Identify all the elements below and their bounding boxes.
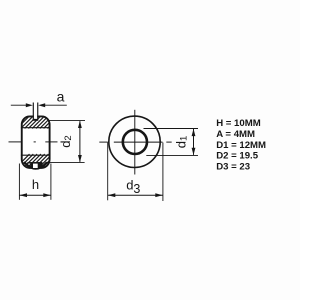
svg-text:d2: d2 bbox=[58, 135, 74, 148]
svg-text:a: a bbox=[57, 88, 65, 104]
svg-text:H = 10MM: H = 10MM bbox=[216, 118, 261, 129]
svg-text:A = 4MM: A = 4MM bbox=[216, 129, 255, 140]
dimension d3: arrows bbox=[108, 193, 115, 197]
svg-text:D1 = 12MM: D1 = 12MM bbox=[216, 140, 266, 151]
top slot white channel (hole a) bbox=[34, 102, 37, 119]
dimension d2: extension lines bbox=[47, 120, 85, 162]
svg-text:d1: d1 bbox=[173, 136, 189, 149]
svg-text:d3: d3 bbox=[126, 178, 140, 197]
top slot bottom closing bbox=[33, 119, 39, 121]
top slot right line bbox=[37, 103, 39, 120]
svg-text:D3 = 23: D3 = 23 bbox=[216, 162, 250, 173]
dimension d1: extension lines bbox=[144, 129, 199, 156]
top slot left line bbox=[32, 103, 34, 120]
bottom notch white channel bbox=[33, 164, 38, 168]
chord line top (hatch boundary) bbox=[21, 127, 51, 129]
dimension h: extension lines bbox=[19, 164, 51, 200]
inner circle d1 (thick) bbox=[123, 130, 147, 154]
dimension d3: extension lines bbox=[108, 143, 163, 202]
dimension d3: dimension line bbox=[108, 194, 163, 196]
outer circle d3 bbox=[109, 116, 160, 167]
dimension d1: dimension line bbox=[193, 129, 195, 155]
dimension d2: dimension line bbox=[79, 121, 81, 162]
grommet section outline bbox=[22, 116, 50, 168]
centerline left figure bbox=[9, 141, 58, 143]
svg-text:D2 = 19.5: D2 = 19.5 bbox=[216, 151, 259, 162]
hatch top band bbox=[17, 115, 61, 128]
dimension h: dimension line bbox=[19, 194, 51, 196]
dimension d2: arrows bbox=[78, 121, 82, 128]
horizontal centerline circle bbox=[99, 141, 171, 143]
dimension a: right arrow bbox=[38, 103, 45, 107]
dimension h: arrows bbox=[20, 193, 27, 197]
bottom outline thickened center arc bbox=[24, 162, 47, 169]
vertical centerline circle bbox=[134, 110, 136, 175]
dimension a: lines bbox=[11, 104, 67, 106]
hatch bottom band bbox=[14, 154, 60, 170]
bottom notch solid flanks bbox=[30, 162, 42, 168]
svg-text:h: h bbox=[32, 177, 39, 192]
chord line bottom (hatch boundary) bbox=[21, 154, 51, 156]
dimension a: left arrow bbox=[26, 103, 33, 107]
dimension d1: arrows bbox=[192, 129, 196, 136]
bottom notch step line bbox=[27, 162, 42, 164]
spec text block bbox=[216, 118, 266, 172]
